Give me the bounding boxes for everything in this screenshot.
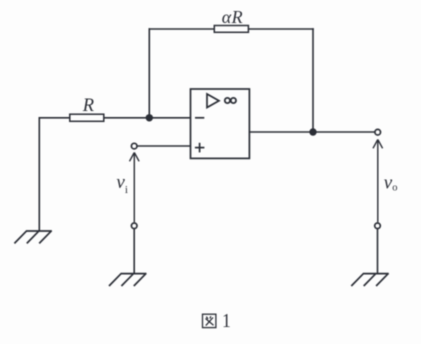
wire: left input vertical down to ground — [38, 117, 40, 231]
wire: non-inverting input from vi terminal to op-amp — [138, 145, 191, 147]
node A: inverting input junction dot — [146, 114, 153, 121]
svg-text:vo: vo — [384, 172, 398, 193]
op-amp U1 infinite-gain symbol — [225, 98, 236, 103]
resistor R (input) — [70, 114, 104, 121]
wire: node A to op-amp inverting input — [149, 117, 190, 119]
op-amp U1 body — [191, 89, 250, 158]
arrow: vo polarity arrow pointing up — [373, 140, 383, 223]
svg-text:R: R — [82, 96, 94, 116]
svg-text:1: 1 — [222, 310, 231, 332]
wire: right feedback vertical (top wire down to output node B) — [312, 28, 314, 132]
svg-text:vi: vi — [116, 172, 128, 196]
ground (right, below vo) — [351, 273, 388, 286]
terminal: vi lower (open circle) — [131, 223, 137, 229]
svg-text:αR: αR — [222, 7, 243, 27]
resistor aR (feedback) — [214, 26, 248, 33]
wire: vo lower terminal down to ground — [377, 229, 379, 274]
ground (center, below vi) — [109, 273, 146, 286]
arrow: vi polarity arrow pointing up — [130, 153, 140, 223]
terminal: vo upper (open circle) — [375, 129, 381, 135]
op-amp U1 inverting input marker (minus) — [195, 117, 204, 119]
wire: node B to vo terminal — [313, 131, 375, 133]
wire: resistor R to node A — [104, 117, 150, 119]
terminal: vo lower (open circle) — [375, 223, 381, 229]
op-amp U1 amplifier triangle symbol — [207, 94, 219, 108]
ground (left) — [14, 231, 51, 244]
wire: op-amp output to node B — [249, 131, 313, 133]
caption: kanji ZU (figure) drawn glyph — [203, 314, 216, 327]
op-amp U1 non-inverting input marker (plus) — [195, 143, 205, 153]
wire: left feedback vertical (node A up to top wire) — [148, 28, 150, 118]
terminal: vi upper (open circle) — [131, 143, 137, 149]
wire: left input horizontal into resistor R — [39, 117, 71, 119]
wire: top feedback horizontal, right of alphaR — [248, 28, 313, 30]
node B: output junction dot — [309, 128, 316, 135]
wire: vi lower terminal down to ground — [133, 229, 135, 274]
wire: top feedback horizontal, left of alphaR — [149, 28, 216, 30]
